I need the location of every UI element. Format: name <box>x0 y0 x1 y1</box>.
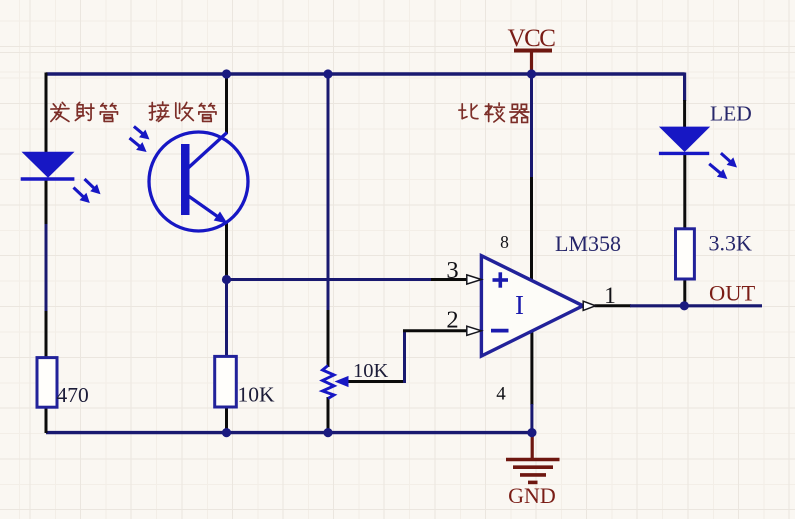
resistor R3 3.3K <box>676 229 695 279</box>
svg-text:VCC: VCC <box>508 25 556 52</box>
label text fa 发 <box>51 102 69 121</box>
Q1 collector stroke <box>187 133 227 170</box>
wire bottom horizontal bus <box>46 431 532 434</box>
junction node 8 <box>680 301 689 310</box>
svg-text:10K: 10K <box>238 383 276 407</box>
wire top horizontal bus <box>46 72 685 75</box>
svg-text:LM358: LM358 <box>555 231 621 256</box>
wire R2 bottom to bus <box>225 407 228 433</box>
ground GND symbol <box>506 432 560 482</box>
svg-text:GND: GND <box>508 483 556 508</box>
Q1 emitter stroke with arrow <box>187 195 228 224</box>
wire pin4 vertical GND feed <box>530 331 533 405</box>
label text guan 管 <box>199 103 216 121</box>
svg-text:1: 1 <box>604 283 616 309</box>
junction node 3 <box>527 69 536 78</box>
junction node 1 <box>222 69 231 78</box>
U1 pin1 output open arrow <box>583 301 595 310</box>
label text shou 收 <box>176 102 194 120</box>
junction node 2 <box>323 69 332 78</box>
svg-text:I: I <box>515 290 524 320</box>
svg-text:LED: LED <box>710 102 752 126</box>
D2 emitted light arrows <box>709 153 737 179</box>
wire left vertical (LED branch) <box>45 73 48 434</box>
U1 pin2 open arrow <box>467 326 482 335</box>
svg-text:470: 470 <box>57 383 89 407</box>
label text she 射 <box>75 102 94 120</box>
junction node 6 <box>323 428 332 437</box>
RP1 wiper arrow <box>335 376 349 387</box>
svg-text:4: 4 <box>496 384 506 405</box>
resistor R2 10K <box>215 356 237 407</box>
wire node to R2 top <box>225 278 228 358</box>
label text jie 接 <box>149 102 168 121</box>
svg-text:8: 8 <box>500 232 509 252</box>
Q1 incoming light arrows <box>130 126 150 152</box>
power VCC symbol <box>514 50 552 73</box>
junction node 4 <box>222 275 231 284</box>
U1 minus input marking <box>491 329 509 333</box>
junction node 7 <box>527 428 536 437</box>
svg-text:2: 2 <box>446 307 458 334</box>
wire phototransistor collector <box>225 73 228 135</box>
wire output pin1 <box>595 304 632 307</box>
svg-text:3: 3 <box>446 257 458 284</box>
U1 plus input marking <box>493 272 509 287</box>
diode D2 indicator LED <box>659 127 710 154</box>
wire pin3 horizontal <box>225 278 432 281</box>
junction node 5 <box>222 428 231 437</box>
wire potentiometer branch vertical <box>327 73 330 312</box>
wire LED2 branch top <box>683 73 686 102</box>
wire LED2 to R3 <box>683 153 686 230</box>
label text qi 器 <box>510 104 529 122</box>
svg-text:10K: 10K <box>353 360 389 382</box>
svg-text:OUT: OUT <box>709 281 755 306</box>
Q1 base bar <box>181 144 190 215</box>
label text jiao 较 <box>485 103 504 122</box>
U1 pin3 open arrow <box>467 275 482 284</box>
wire pin8 vertical VCC feed <box>530 73 533 179</box>
potentiometer RP1 zigzag <box>323 366 335 399</box>
resistor R1 470 <box>37 358 57 408</box>
label text bi 比 <box>459 104 478 119</box>
svg-text:3.3K: 3.3K <box>709 231 753 256</box>
op-amp U1 triangle <box>481 256 583 356</box>
D1 emitted light arrows <box>74 179 101 203</box>
wire pot wiper to pin2 <box>347 380 406 383</box>
transistor Q1 phototransistor circle <box>149 132 248 231</box>
diode D1 infrared emitter LED <box>21 152 75 179</box>
wire phototransistor emitter to node <box>225 222 228 280</box>
wire R3 to output <box>683 279 686 307</box>
label text guan 管 <box>100 103 117 121</box>
